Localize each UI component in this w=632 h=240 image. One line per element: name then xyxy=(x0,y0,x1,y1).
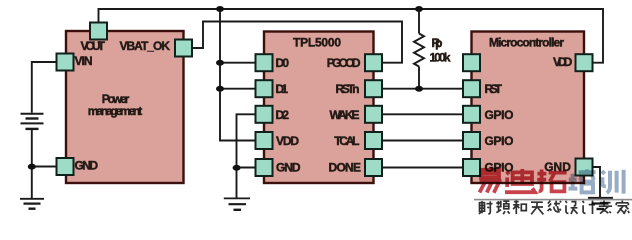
svg-text:VOUT: VOUT xyxy=(81,39,106,53)
svg-text:GPIO: GPIO xyxy=(485,108,514,122)
svg-text:VBAT_OK: VBAT_OK xyxy=(120,39,171,53)
svg-text:WAKE: WAKE xyxy=(330,108,360,122)
svg-text:VIN: VIN xyxy=(75,54,93,68)
svg-text:VDD: VDD xyxy=(276,134,299,148)
svg-text:D0: D0 xyxy=(276,56,290,70)
svg-text:VDD: VDD xyxy=(553,55,573,69)
svg-text:100k: 100k xyxy=(430,51,451,65)
svg-text:TPL5000: TPL5000 xyxy=(293,36,341,50)
svg-text:RST: RST xyxy=(485,82,503,96)
svg-text:Rp: Rp xyxy=(432,36,443,50)
svg-text:Microcontroller: Microcontroller xyxy=(489,36,564,50)
svg-text:TCAL: TCAL xyxy=(334,134,359,148)
svg-text:D2: D2 xyxy=(276,108,290,122)
svg-text:management: management xyxy=(88,104,143,118)
svg-text:DONE: DONE xyxy=(329,161,362,175)
svg-text:GPIO: GPIO xyxy=(485,134,514,148)
svg-text:GND: GND xyxy=(276,161,301,175)
svg-text:PGOOD: PGOOD xyxy=(327,56,361,70)
svg-text:D1: D1 xyxy=(276,82,289,96)
svg-text:RSTn: RSTn xyxy=(336,82,360,96)
svg-text:GND: GND xyxy=(75,159,99,173)
